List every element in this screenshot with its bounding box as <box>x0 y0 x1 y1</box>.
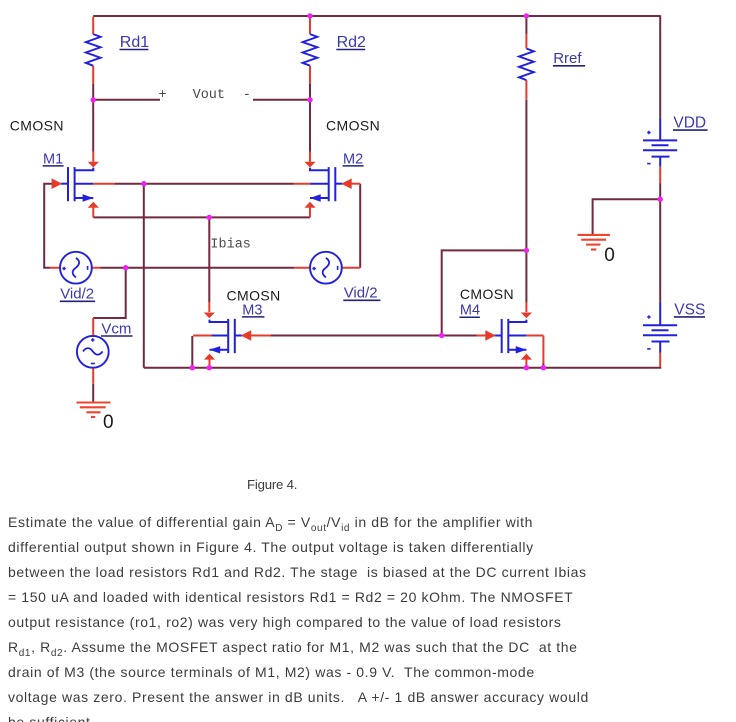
label VSS <box>674 301 705 318</box>
transistor M1 <box>61 167 94 202</box>
battery VSS red lead <box>659 353 661 368</box>
wire Rd1 bottom to M1 drain <box>92 84 94 152</box>
wire Rref bottom to M4 drain <box>525 100 527 302</box>
wire mid node drop to Vcm <box>93 268 126 318</box>
label Vid/2 left <box>60 286 95 303</box>
source Vid/2 left <box>50 252 101 284</box>
svg-text:Rref: Rref <box>553 50 582 67</box>
svg-text:-: - <box>243 88 251 103</box>
svg-text:M1: M1 <box>43 151 63 167</box>
wire M2 gate drop to Vid/2 right source <box>359 184 361 268</box>
transistor M4 pin arrows <box>477 302 544 368</box>
svg-text:Rd2: Rd2 <box>337 34 366 51</box>
svg-text:VSS: VSS <box>674 301 705 318</box>
wire top rail VDD net <box>93 15 660 17</box>
svg-text:CMOSN: CMOSN <box>227 288 281 304</box>
battery VDD red lead <box>659 167 661 184</box>
wire node 0 tap to ground <box>593 199 661 234</box>
wire Rref top stub <box>525 16 527 34</box>
wire M1 source to M2 source rail <box>93 216 310 218</box>
ground 0 near VDD <box>578 235 610 250</box>
wire M1 bulk to M2 bulk rail <box>115 183 294 185</box>
wire VDD battery minus to node 0 down to VSS battery <box>659 184 661 302</box>
label Vid/2 right <box>343 285 380 302</box>
svg-text:Vout: Vout <box>193 88 225 103</box>
resistor Rd1 <box>86 17 101 84</box>
svg-text:M3: M3 <box>242 302 262 318</box>
svg-text:CMOSN: CMOSN <box>460 286 514 302</box>
transistor M2 <box>310 167 343 202</box>
battery VDD <box>643 118 677 167</box>
label Rref <box>553 50 585 67</box>
label M2 <box>343 151 364 167</box>
svg-text:Vid/2: Vid/2 <box>60 286 94 303</box>
wire M1 gate to Vid/2 left source <box>44 184 53 268</box>
source Vid/2 right <box>294 252 360 284</box>
svg-text:CMOSN: CMOSN <box>326 118 380 134</box>
svg-text:+: + <box>159 88 167 103</box>
wire M3 gate to M4 gate run <box>271 335 477 337</box>
label Rd1 <box>120 34 150 51</box>
transistor M4 <box>494 319 526 354</box>
wire bulk node drop to VSS rail <box>143 184 145 368</box>
source Vcm <box>77 318 109 384</box>
svg-text:M2: M2 <box>343 151 363 167</box>
label M1 <box>43 151 64 167</box>
problem text paragraph <box>8 510 736 722</box>
label Vcm <box>101 320 133 337</box>
wire Rd2 bottom to M2 drain <box>309 84 311 152</box>
label M4 <box>460 303 481 319</box>
wire gate node up to Rref bottom node <box>442 250 527 335</box>
wire bottom rail VSS net <box>144 366 660 369</box>
resistor Rref <box>519 34 534 100</box>
wire Vout minus tap <box>253 99 310 101</box>
svg-text:Rd1: Rd1 <box>120 34 149 51</box>
wire M4 bulk drop lower stub <box>542 363 544 368</box>
wire between Vid/2 sources <box>101 267 295 269</box>
svg-text:0: 0 <box>604 245 615 266</box>
transistor M1 pin arrows <box>52 152 115 218</box>
wire Vout plus tap <box>93 99 160 101</box>
junction node dots <box>91 13 663 370</box>
transistor M3 pin arrows <box>193 302 271 368</box>
svg-text:CMOSN: CMOSN <box>10 118 64 134</box>
wire Vcm minus to ground <box>92 384 94 403</box>
svg-text:0: 0 <box>103 412 114 433</box>
transistor M3 <box>209 319 242 354</box>
label VDD <box>673 115 708 132</box>
transistor M2 pin arrows <box>294 152 361 218</box>
wire tail node down to M3 drain <box>208 217 210 302</box>
resistor Rd2 <box>303 17 318 84</box>
label M3 <box>242 302 265 318</box>
svg-text:VDD: VDD <box>673 115 706 132</box>
battery VSS <box>643 302 677 353</box>
wire M3 bulk drop to VSS rail <box>191 336 193 368</box>
figure caption <box>247 477 297 492</box>
svg-text:Vcm: Vcm <box>101 320 131 337</box>
svg-text:M4: M4 <box>460 303 480 319</box>
label Rd2 <box>336 34 366 51</box>
svg-text:Vid/2: Vid/2 <box>344 285 378 302</box>
wire right rail upper (top rail to VDD battery) <box>659 15 661 118</box>
ground 0 under Vcm <box>77 403 111 418</box>
svg-text:Ibias: Ibias <box>210 238 251 253</box>
